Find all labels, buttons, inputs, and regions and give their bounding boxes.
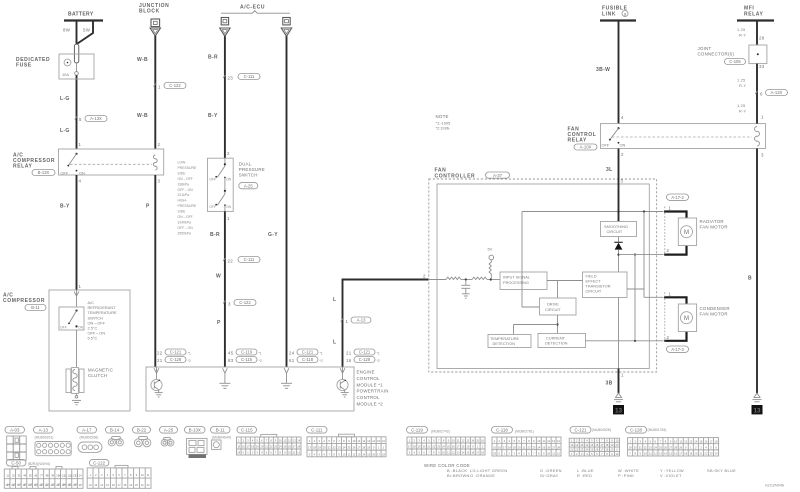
svg-text:POWERTRAIN: POWERTRAIN [357,389,389,394]
svg-text:A-13: A-13 [39,428,49,433]
svg-text:MAGNETIC: MAGNETIC [88,368,113,373]
svg-text:O :ORANGE: O :ORANGE [470,473,495,478]
svg-text:DETECTION: DETECTION [545,341,568,346]
svg-text:*1: *1 [188,352,191,356]
svg-text:HIGH-: HIGH- [178,199,188,203]
svg-text:21: 21 [346,351,352,356]
svg-text:PRESSURE: PRESSURE [178,166,197,170]
svg-text:4: 4 [621,115,624,120]
svg-text:MODULE *1: MODULE *1 [357,382,384,387]
svg-text:OFF→ON: OFF→ON [178,188,194,192]
svg-text:B-R: B-R [208,55,218,61]
svg-text:2: 2 [621,152,624,157]
svg-text:1.25: 1.25 [737,78,745,83]
svg-text:M: M [684,230,689,236]
svg-text:10A: 10A [62,72,69,77]
svg-text:CONTROL: CONTROL [357,395,381,400]
svg-text:28: 28 [759,36,765,41]
svg-text:BATTERY: BATTERY [68,12,94,18]
svg-text:*2: *2 [259,359,262,363]
svg-text:ON: ON [78,326,84,330]
svg-text:1: 1 [761,115,764,120]
svg-text:OFF→ON: OFF→ON [178,226,194,230]
svg-text:(B2RJ)(W2H4): (B2RJ)(W2H4) [28,462,50,466]
svg-text:5: 5 [79,117,82,122]
svg-text:A-17-2: A-17-2 [671,195,684,200]
svg-text:5V: 5V [488,247,493,252]
svg-text:11: 11 [64,474,67,478]
svg-text:26: 26 [74,483,78,487]
svg-text:19: 19 [35,483,39,487]
svg-text:INPUT SIGNAL: INPUT SIGNAL [503,275,531,280]
svg-text:83: 83 [228,358,234,363]
svg-text:23: 23 [228,76,234,81]
svg-text:RELAY: RELAY [568,138,588,144]
svg-text:21: 21 [157,358,163,363]
svg-text:SB:SKY BLUE: SB:SKY BLUE [707,468,736,473]
svg-text:3B-W: 3B-W [596,67,610,73]
svg-text:*1: *1 [320,352,323,356]
svg-text:C-122: C-122 [93,461,106,466]
svg-text:M: M [684,316,689,322]
svg-text:C-111: C-111 [244,74,255,79]
svg-text:(MU801784): (MU801784) [648,428,667,432]
svg-text:22: 22 [51,483,55,487]
svg-text:C-105: C-105 [729,59,741,64]
svg-text:P: P [217,320,221,326]
svg-text:1: 1 [158,85,161,90]
svg-text:12: 12 [69,474,73,478]
svg-text:1.25: 1.25 [737,103,745,108]
svg-text:2: 2 [227,151,230,156]
svg-text:(MU804928): (MU804928) [592,428,611,432]
svg-text:24: 24 [289,351,295,356]
svg-text:C-118: C-118 [496,428,508,433]
svg-text:B-22: B-22 [137,428,147,433]
svg-text:16: 16 [346,358,352,363]
svg-text:23: 23 [57,483,61,487]
svg-text:3: 3 [158,179,161,184]
svg-text:ON→OFF: ON→OFF [178,177,193,181]
svg-text:24: 24 [63,483,67,487]
svg-text:PROCESSING: PROCESSING [503,280,529,285]
svg-text:5.5°C: 5.5°C [88,336,98,341]
svg-text:G-Y: G-Y [268,232,278,238]
svg-text:2: 2 [158,142,161,147]
svg-text:P: P [146,204,150,210]
svg-text:2: 2 [667,248,670,253]
svg-text:C-128: C-128 [359,357,371,362]
svg-text:A-13: A-13 [357,318,367,323]
svg-text:PRESSURE: PRESSURE [178,204,197,208]
svg-text:2: 2 [667,335,670,340]
svg-text:CONDENSER: CONDENSER [700,306,730,311]
svg-text:3: 3 [228,302,231,307]
svg-text:C-118: C-118 [302,357,314,362]
svg-text:6: 6 [760,92,763,97]
svg-text:PRESSURE: PRESSURE [239,167,265,172]
svg-text:L: L [333,340,336,346]
svg-text:4: 4 [79,179,82,184]
svg-text:JOINT: JOINT [698,46,712,51]
svg-text:C-121: C-121 [170,350,182,355]
svg-text:*2: *2 [377,359,380,363]
svg-text:B-Y: B-Y [60,204,70,210]
svg-text:(MU802781): (MU802781) [515,430,534,434]
svg-text:A-25: A-25 [244,183,254,188]
svg-text:25: 25 [68,483,72,487]
svg-text:(MU802266): (MU802266) [80,436,99,440]
svg-text:2550kPa: 2550kPa [178,231,191,235]
svg-text:ON: ON [79,171,85,176]
svg-text:B-13X: B-13X [189,428,201,433]
svg-text:CLUTCH: CLUTCH [88,373,107,378]
svg-text:LINK: LINK [602,12,616,18]
svg-text:RELAY: RELAY [13,164,33,170]
svg-text:13: 13 [753,407,761,414]
svg-text:DETECTION: DETECTION [493,341,516,346]
svg-text:ENGINE: ENGINE [357,370,375,375]
svg-text:SWITCH: SWITCH [239,172,258,177]
svg-text:17: 17 [23,483,27,487]
svg-text:RELAY: RELAY [744,12,764,18]
svg-text:15: 15 [12,483,16,487]
svg-text:20: 20 [40,483,44,487]
svg-text:ON: ON [226,205,232,209]
svg-text:*2: *2 [188,359,191,363]
svg-text:ON: ON [226,178,232,182]
svg-text:NOTE: NOTE [436,114,449,119]
svg-text:A-03: A-03 [10,428,20,433]
svg-text:61: 61 [289,358,295,363]
svg-text:R :RED: R :RED [577,473,592,478]
svg-text:(MU804640): (MU804640) [212,435,231,439]
svg-text:C-121: C-121 [575,428,588,433]
svg-text:ON→OFF: ON→OFF [178,215,193,219]
svg-text:LOW-: LOW- [178,161,187,165]
svg-text:R-Y: R-Y [739,83,747,88]
svg-text:COMPRESSOR: COMPRESSOR [3,298,45,304]
svg-text:A/C-ECU: A/C-ECU [240,5,265,11]
svg-text:BLOCK: BLOCK [139,9,160,15]
svg-text:B-11: B-11 [31,305,40,310]
svg-text:45: 45 [228,351,234,356]
svg-text:B-13X: B-13X [38,170,50,175]
svg-text:FAN MOTOR: FAN MOTOR [700,312,728,317]
svg-text:OFF: OFF [209,205,216,209]
svg-text:CIRCUIT: CIRCUIT [545,307,561,312]
svg-text:5W: 5W [83,28,91,33]
svg-text:DRIVE: DRIVE [547,302,559,307]
svg-text:8W: 8W [63,28,71,33]
svg-text:13: 13 [75,474,79,478]
svg-text:221kPa: 221kPa [178,193,190,197]
svg-text:3140kPa: 3140kPa [178,220,191,224]
svg-text:(MU802742): (MU802742) [431,430,450,434]
svg-text:ON: ON [620,143,626,148]
svg-text:B-Y: B-Y [208,113,218,119]
svg-text:1.25: 1.25 [737,27,745,32]
svg-text:CIRCUIT: CIRCUIT [586,289,602,294]
svg-text:1: 1 [669,292,672,297]
svg-text:R-Y: R-Y [739,33,747,38]
svg-text:(MU801651): (MU801651) [35,436,54,440]
svg-text:FUSE: FUSE [16,63,32,69]
svg-text:196kPa: 196kPa [178,182,190,186]
svg-text:CONNECTOR(6): CONNECTOR(6) [698,52,735,57]
svg-text:14: 14 [7,483,11,487]
svg-text:H2J1ZM04B: H2J1ZM04B [765,484,785,488]
svg-text:*1: *1 [259,352,262,356]
svg-text:3B: 3B [606,381,613,387]
svg-text:V :VIOLET: V :VIOLET [660,473,682,478]
svg-text:C-50: C-50 [11,461,21,466]
svg-text:A-25: A-25 [164,428,174,433]
svg-text:OFF: OFF [60,326,67,330]
svg-text:B-11: B-11 [216,428,226,433]
svg-text:L-G: L-G [60,96,70,102]
svg-text:3: 3 [761,153,764,158]
svg-text:OFF: OFF [61,171,69,176]
svg-text:33: 33 [759,64,765,69]
svg-text:3: 3 [621,179,624,184]
svg-text:R-Y: R-Y [739,109,747,114]
svg-text:21: 21 [46,483,50,487]
svg-text:A-17: A-17 [82,428,92,433]
svg-text:1: 1 [79,284,82,289]
svg-text:OFF: OFF [602,143,610,148]
svg-text:FAN MOTOR: FAN MOTOR [700,225,728,230]
svg-text:CONTROL: CONTROL [357,376,381,381]
svg-text:C-128: C-128 [630,428,643,433]
svg-text:*1: *1 [377,352,380,356]
svg-text:L: L [333,297,336,303]
svg-text:C-111: C-111 [244,257,255,262]
svg-text:MODULE *2: MODULE *2 [357,402,384,407]
svg-text:RADIATOR: RADIATOR [700,219,724,224]
svg-text:18: 18 [29,483,33,487]
svg-text:B-R: B-R [210,232,220,238]
svg-text:1: 1 [346,319,349,324]
svg-text:A-10X: A-10X [580,145,592,150]
svg-text:16: 16 [18,483,22,487]
svg-text:SIDE: SIDE [178,171,187,175]
svg-text:OFF: OFF [209,178,216,182]
svg-text:C-122: C-122 [169,83,181,88]
svg-text:DUAL: DUAL [239,161,252,166]
svg-text:1: 1 [669,206,672,211]
svg-text:A-17-3: A-17-3 [671,347,684,352]
svg-text:L-G: L-G [60,128,70,134]
svg-text:A-13X: A-13X [90,116,102,121]
svg-text:C-121: C-121 [302,350,314,355]
svg-text:A-13X: A-13X [771,90,783,95]
svg-text:C-119: C-119 [411,428,423,433]
svg-text:1: 1 [621,373,624,378]
svg-text:W: W [216,274,221,280]
svg-text:C-111: C-111 [311,428,323,433]
svg-text:Gr:GRAY: Gr:GRAY [540,473,559,478]
svg-text:P :PINK: P :PINK [618,473,634,478]
svg-text:3L: 3L [606,167,613,173]
svg-text:Br:BROWN: Br:BROWN [447,473,470,478]
svg-text:W-B: W-B [137,113,148,119]
svg-text:C-122: C-122 [239,300,251,305]
svg-text:B-14: B-14 [110,428,120,433]
svg-text:C-121: C-121 [359,350,371,355]
svg-text:C-119: C-119 [241,350,253,355]
svg-text:1: 1 [79,142,82,147]
svg-text:22: 22 [228,259,234,264]
svg-text:10: 10 [58,474,62,478]
svg-text:1: 1 [227,216,230,221]
svg-text:B: B [748,276,752,282]
svg-text:*2: *2 [320,359,323,363]
svg-text:A-37: A-37 [493,173,503,178]
svg-text:C-115: C-115 [241,357,253,362]
svg-text:13: 13 [615,407,623,414]
svg-text:CIRCUIT: CIRCUIT [607,229,623,234]
svg-text:CONTROLLER: CONTROLLER [435,173,476,179]
svg-text:C-128: C-128 [170,357,182,362]
svg-text:SIDE: SIDE [178,210,187,214]
svg-text:22: 22 [157,351,163,356]
svg-text:W-B: W-B [137,57,148,63]
svg-text:C-115: C-115 [241,428,253,433]
svg-text:2: 2 [423,274,426,279]
svg-text:*2:1996-: *2:1996- [436,126,451,131]
